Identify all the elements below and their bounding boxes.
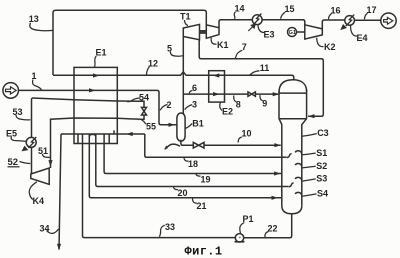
- svg-text:52: 52: [8, 157, 19, 168]
- svg-text:6: 6: [192, 83, 197, 93]
- svg-text:E4: E4: [357, 33, 368, 43]
- svg-text:11: 11: [260, 63, 270, 73]
- svg-text:18: 18: [188, 159, 198, 169]
- svg-text:7: 7: [242, 42, 247, 52]
- svg-text:K2: K2: [324, 42, 336, 52]
- svg-text:2: 2: [167, 100, 172, 110]
- svg-text:12: 12: [148, 59, 158, 69]
- svg-text:15: 15: [285, 4, 295, 14]
- svg-text:19: 19: [201, 175, 211, 185]
- svg-text:21: 21: [197, 201, 207, 211]
- svg-text:B1: B1: [192, 118, 204, 128]
- svg-text:33: 33: [165, 222, 175, 232]
- svg-text:20: 20: [178, 188, 188, 198]
- svg-text:E2: E2: [222, 107, 233, 117]
- svg-text:51: 51: [38, 146, 48, 156]
- svg-text:54: 54: [139, 93, 149, 103]
- svg-text:8: 8: [236, 100, 241, 110]
- svg-text:G1: G1: [289, 30, 296, 36]
- svg-text:22: 22: [268, 224, 278, 234]
- svg-text:3: 3: [192, 100, 197, 110]
- svg-text:K1: K1: [217, 40, 229, 50]
- svg-text:T1: T1: [180, 12, 191, 22]
- svg-text:16: 16: [331, 6, 341, 16]
- svg-text:55: 55: [146, 122, 156, 132]
- svg-text:E3: E3: [264, 30, 275, 40]
- svg-text:C3: C3: [317, 128, 329, 138]
- svg-text:K4: K4: [33, 196, 45, 206]
- svg-text:9: 9: [262, 99, 267, 109]
- svg-text:10: 10: [242, 129, 252, 139]
- svg-text:S4: S4: [317, 189, 328, 199]
- svg-text:17: 17: [367, 5, 377, 15]
- svg-text:14: 14: [235, 4, 245, 14]
- svg-text:S1: S1: [316, 148, 327, 158]
- svg-text:Фиг.1: Фиг.1: [185, 245, 223, 258]
- svg-text:5: 5: [167, 44, 172, 54]
- svg-text:1: 1: [32, 71, 37, 81]
- svg-text:E5: E5: [6, 129, 17, 139]
- svg-text:S2: S2: [316, 161, 327, 171]
- svg-text:P1: P1: [243, 214, 254, 224]
- svg-text:E1: E1: [96, 48, 107, 58]
- svg-text:13: 13: [29, 14, 39, 24]
- svg-text:53: 53: [13, 107, 23, 117]
- svg-text:34: 34: [40, 224, 50, 234]
- svg-text:S3: S3: [316, 173, 327, 183]
